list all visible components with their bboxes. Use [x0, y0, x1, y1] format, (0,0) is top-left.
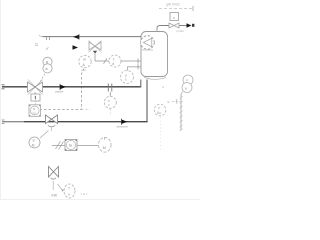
svg-text:gW 5433: gW 5433 — [166, 3, 180, 7]
svg-text:Mo: Mo — [157, 111, 162, 115]
dashed trunk right stub — [82, 109, 91, 111]
svg-text:E: E — [168, 100, 170, 104]
slash marks — [56, 141, 64, 150]
vent line hatched — [180, 94, 183, 131]
double instrument DC2 — [181, 75, 193, 95]
svg-text:wasser: wasser — [55, 89, 64, 93]
signal end tick — [192, 6, 194, 11]
svg-text:abwasser: abwasser — [117, 125, 129, 129]
svg-text:P: P — [158, 106, 160, 110]
svg-text:ta: ta — [69, 144, 72, 148]
valve V2 — [89, 41, 102, 53]
vessel inlet drop — [156, 28, 158, 32]
V4 dome — [51, 178, 57, 179]
stem to SB1 — [34, 101, 36, 105]
frame border — [0, 0, 200, 200]
svg-text:M: M — [103, 146, 106, 150]
valve V1 — [28, 80, 43, 95]
square instrument SB2 — [65, 140, 77, 151]
valve V2 down arrow — [93, 51, 97, 54]
signal diagonal V3 to PI — [40, 131, 49, 139]
svg-text:T: T — [68, 186, 70, 190]
V3 stem down — [51, 128, 53, 132]
tiny mark eq — [35, 44, 38, 46]
pipe to buffer — [157, 26, 187, 29]
square instrument box SB1 — [29, 105, 41, 117]
V3 dome — [48, 125, 55, 127]
faint dotted drop from DC3 — [160, 117, 162, 150]
instrument circle FI — [104, 92, 116, 116]
line TI to vessel — [121, 60, 141, 62]
valve V2 stem — [94, 54, 96, 61]
tiny mark slash — [46, 47, 48, 49]
dashed signal line to tag — [159, 8, 193, 10]
double instrument DC1 — [43, 57, 52, 73]
main feed line — [43, 36, 142, 38]
flow arrow left — [73, 34, 79, 39]
controller circle C1 — [79, 55, 91, 72]
feed line m mark — [47, 37, 50, 40]
V1 actuator stem — [34, 92, 36, 94]
vessel B1 — [141, 32, 168, 80]
pipe B drain vertical — [146, 80, 148, 122]
pipe A main — [2, 86, 141, 88]
pipe B horizontal — [2, 121, 148, 123]
svg-text:KW: KW — [52, 193, 58, 197]
pipe B end tick — [2, 120, 5, 124]
V4 stem down — [52, 181, 54, 190]
bottom valve V4 — [49, 167, 59, 178]
V4 drain diagonal — [58, 184, 63, 191]
agitator circle U1 — [141, 36, 155, 50]
svg-text:ıı: ıı — [108, 103, 110, 107]
instrument circle DC3 — [154, 104, 166, 116]
pipe A riser to vessel — [140, 80, 142, 88]
dashed diagonal V1 to DC1 — [39, 74, 46, 85]
flow arrow right — [187, 23, 192, 28]
svg-text:a: a — [173, 16, 175, 20]
drain arrowhead — [61, 189, 64, 192]
terminator dot — [192, 24, 194, 27]
instrument circle PI — [29, 137, 40, 148]
svg-text:F: F — [186, 79, 188, 83]
pipe B left fade — [2, 120, 24, 124]
actuator box A1 — [170, 13, 179, 21]
svg-text:ıı: ıı — [125, 78, 127, 82]
pipe B flow arrow — [122, 119, 128, 125]
svg-text:M: M — [32, 144, 35, 148]
valve V5 — [169, 23, 179, 28]
instrument circle TI — [109, 55, 121, 67]
flow arrow right 2 — [73, 45, 79, 49]
line to instrument TI — [95, 60, 109, 62]
svg-text:x D x: x D x — [81, 192, 88, 196]
bottom link line — [52, 145, 98, 147]
feed line inlet curl — [39, 35, 43, 36]
slash mark — [104, 58, 108, 64]
C3 stub up — [128, 67, 142, 71]
instrument circle C3 — [121, 71, 134, 84]
instrument ellipse DC4 — [64, 184, 75, 198]
svg-text:puffer: puffer — [177, 29, 185, 33]
flange tick 2 — [137, 64, 139, 69]
svg-text:m: m — [83, 57, 86, 61]
dashed signal C1 to box — [41, 69, 84, 110]
orifice flange — [108, 84, 112, 92]
motor circle M1 — [99, 137, 112, 152]
valve V3 — [46, 115, 58, 124]
pipe A flow arrow — [60, 84, 66, 90]
svg-text:co: co — [33, 111, 37, 115]
stray dot — [163, 87, 164, 88]
tap with label — [168, 99, 181, 104]
V1 actuator box — [31, 94, 40, 101]
svg-text:d: d — [112, 62, 114, 66]
svg-text:u: u — [68, 192, 70, 196]
pipe A end tick — [2, 85, 5, 89]
flange tick — [137, 59, 139, 64]
